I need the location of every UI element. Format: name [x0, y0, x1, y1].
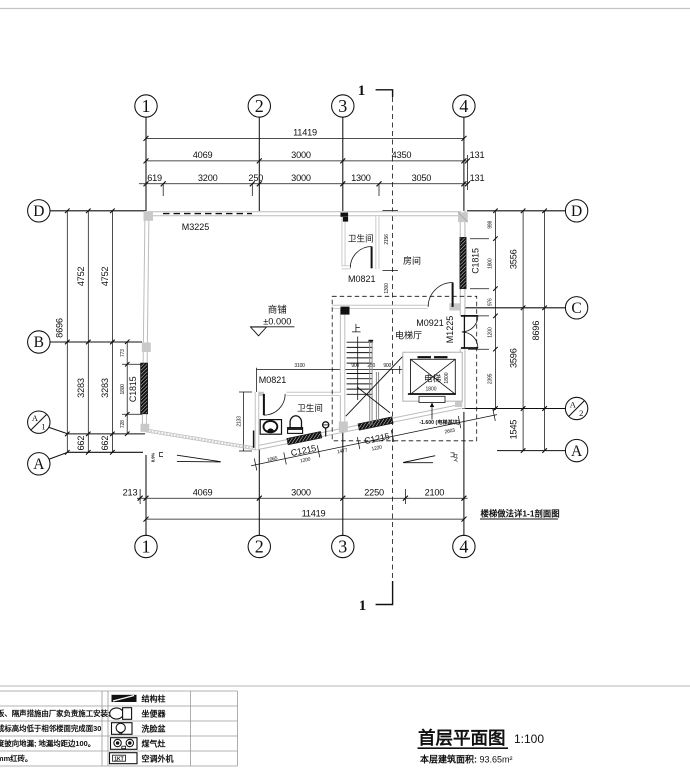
stair break diagonal short — [357, 387, 390, 413]
svg-text:1200: 1200 — [488, 327, 494, 338]
stair note 楼梯做法详1-1剖面图 — [480, 509, 560, 520]
right exterior wall lower — [460, 349, 466, 408]
grid bubble B left — [28, 331, 142, 353]
svg-text:2100: 2100 — [425, 487, 445, 497]
window C1815 left wall — [141, 363, 148, 414]
svg-text:C1815: C1815 — [471, 248, 481, 274]
svg-text:728: 728 — [120, 420, 126, 428]
svg-text:1: 1 — [41, 422, 45, 432]
svg-text:3596: 3596 — [509, 348, 519, 368]
svg-text:3556: 3556 — [509, 249, 519, 269]
svg-text:A: A — [33, 456, 45, 473]
stair rail pair 1 — [370, 341, 372, 425]
wc-top south wall stub — [342, 265, 352, 269]
svg-text:房间: 房间 — [403, 255, 421, 266]
svg-text:1800: 1800 — [120, 384, 126, 395]
svg-text:8696: 8696 — [531, 321, 541, 341]
svg-text:619: 619 — [147, 173, 162, 183]
svg-text:4069: 4069 — [193, 150, 213, 160]
svg-text:B: B — [34, 334, 44, 351]
shopfront slanted thin wall — [144, 429, 257, 451]
slanted bottom dim line — [251, 409, 497, 471]
svg-text:电梯: 电梯 — [424, 374, 442, 384]
svg-text:首层平面图: 首层平面图 — [418, 728, 506, 748]
svg-text:11419: 11419 — [293, 128, 317, 138]
door M0821 wc-top leaf — [371, 247, 373, 269]
window C1215 right (stair) — [358, 417, 393, 430]
left dim axis tick slashes — [65, 209, 115, 455]
svg-text:电梯厅: 电梯厅 — [395, 329, 422, 340]
svg-text:M3225: M3225 — [182, 222, 210, 232]
elevator X cross — [411, 359, 456, 394]
svg-text:1545: 1545 — [509, 420, 519, 440]
svg-text:2395: 2395 — [488, 373, 494, 384]
svg-text:A: A — [570, 399, 577, 409]
svg-text:1300: 1300 — [351, 173, 371, 183]
dashed stair/elevator zone box — [332, 296, 477, 441]
left exterior wall — [144, 211, 147, 430]
door M0921 leaf — [452, 283, 454, 307]
stair break diagonal long — [346, 357, 403, 417]
wc-bottom north wall west stub — [257, 392, 264, 396]
section mark 1 top — [358, 83, 393, 99]
svg-text:成标高均低于相邻楼面完成面30: 成标高均低于相邻楼面完成面30 — [0, 724, 101, 733]
svg-text:3283: 3283 — [76, 378, 86, 398]
svg-text:8.9%: 8.9% — [151, 452, 156, 462]
svg-text:1800: 1800 — [444, 372, 450, 383]
section line 1-1 dashed — [392, 97, 394, 581]
svg-text:A: A — [32, 413, 39, 423]
svg-text:2133: 2133 — [237, 416, 243, 427]
legend symbol basin — [112, 723, 133, 735]
svg-text:卫生间: 卫生间 — [297, 402, 323, 413]
door M1225 frame line — [463, 315, 465, 349]
svg-text:4752: 4752 — [100, 266, 110, 286]
svg-text:洗脸盆: 洗脸盆 — [142, 724, 167, 734]
svg-text:mm红砖。: mm红砖。 — [0, 754, 32, 763]
grid bubble A right — [497, 439, 588, 461]
svg-text:2156: 2156 — [384, 234, 390, 245]
svg-text:773: 773 — [120, 349, 126, 357]
svg-text:3: 3 — [338, 537, 347, 557]
stair treads upper — [347, 342, 373, 363]
wc-top west interior wall — [342, 216, 346, 269]
bottom dim row2 11419 — [144, 508, 467, 521]
door M1225 lower leaf — [461, 347, 478, 349]
entry ramp right — [403, 453, 459, 463]
door M0921 arc — [428, 283, 452, 307]
svg-text:D: D — [33, 203, 44, 220]
grid bubble 2 bottom — [248, 448, 270, 558]
svg-text:本层建筑面积: 93.65m²: 本层建筑面积: 93.65m² — [420, 754, 513, 765]
black column axis3 top wall — [341, 213, 349, 222]
svg-text:2: 2 — [255, 537, 264, 557]
svg-text:998: 998 — [488, 221, 494, 229]
legend notes column — [0, 709, 110, 763]
2133 dim — [237, 392, 253, 451]
svg-text:1: 1 — [142, 537, 151, 557]
door M1225 upper leaf — [461, 315, 478, 317]
svg-text:C1815: C1815 — [128, 376, 138, 402]
svg-text:3000: 3000 — [291, 487, 311, 497]
right dim lines — [468, 209, 545, 451]
svg-text:商铺: 商铺 — [268, 304, 287, 316]
column bottom-left corner — [141, 424, 150, 432]
right dim axis tick slashes — [521, 209, 547, 453]
svg-text:1: 1 — [142, 96, 151, 116]
grid bubble D left — [28, 200, 146, 222]
M3225 dashed opening — [163, 213, 252, 215]
wc-top east interior wall — [375, 216, 379, 269]
toilet — [260, 420, 281, 435]
wc-bottom west wall — [255, 392, 260, 449]
level marker ±0.000 — [251, 304, 295, 336]
left dim lines — [55, 211, 147, 452]
grid bubble A left — [28, 452, 143, 475]
svg-text:煤气灶: 煤气灶 — [142, 739, 166, 749]
svg-text:2250: 2250 — [364, 487, 384, 497]
title underline — [418, 747, 509, 749]
svg-text:板、隔声措施由厂家负责施工安装;: 板、隔声措施由厂家负责施工安装; — [0, 709, 110, 718]
legend symbol gas stove — [111, 738, 138, 750]
column C axis right — [449, 303, 460, 310]
svg-text:A: A — [571, 443, 583, 460]
grid bubble A/1 left — [28, 411, 145, 434]
svg-text:±0.000: ±0.000 — [263, 316, 291, 326]
grid bubble 3 top — [332, 95, 354, 211]
elevator-hall north wall — [332, 305, 428, 309]
svg-text:空调外机: 空调外机 — [142, 754, 174, 764]
svg-text:662: 662 — [100, 436, 110, 451]
elevator shaft outer wall — [403, 352, 463, 401]
sheet top rule — [0, 8, 690, 10]
svg-text:11419: 11419 — [302, 508, 326, 518]
column top-right corner — [458, 212, 468, 222]
grid bubble 4 bottom — [453, 412, 475, 558]
stair rail pair 2 — [376, 372, 378, 421]
legend symbol AC unit — [110, 753, 138, 764]
grid bubble 1 top — [135, 95, 157, 211]
section mark 1 bottom — [359, 581, 393, 614]
svg-text:3050: 3050 — [412, 173, 432, 183]
svg-text:2: 2 — [579, 408, 583, 418]
svg-text:1:100: 1:100 — [514, 732, 544, 746]
black column elevator-hall wall — [341, 307, 350, 315]
column top-left corner — [144, 211, 154, 221]
svg-text:1800: 1800 — [488, 258, 494, 269]
grid bubble 4 top — [453, 95, 475, 211]
black wall stub wc-bottom west edge — [253, 431, 255, 448]
elevator shaft inner wall — [411, 359, 456, 394]
grid bubble D right — [467, 200, 588, 222]
legend symbol toilet — [110, 708, 132, 720]
svg-text:D: D — [571, 203, 582, 220]
door M1225 upper arc — [462, 316, 478, 332]
svg-text:结构柱: 结构柱 — [142, 694, 166, 704]
svg-text:M0921: M0921 — [416, 318, 444, 328]
svg-text:8696: 8696 — [55, 318, 65, 338]
top dim line row2 4069/3000/4350/131 — [144, 150, 485, 163]
svg-text:3: 3 — [338, 96, 347, 116]
door M0821 wc-bottom arc — [264, 394, 285, 415]
column stair west bottom — [339, 422, 348, 433]
svg-text:上: 上 — [351, 324, 361, 335]
top dim line row3 619/3200/250/3000/1300/3050/131 — [139, 155, 484, 196]
stair dim line 3100/900/250/900 — [257, 363, 403, 394]
stair treads lower — [347, 374, 373, 395]
svg-text:3000: 3000 — [291, 173, 311, 183]
elevator top door lines — [418, 356, 448, 358]
svg-text:1: 1 — [358, 83, 366, 99]
svg-text:1: 1 — [359, 598, 367, 614]
bottom dim row1 213/4069/3000/2250/2100 — [123, 487, 468, 504]
elevator bottom sill — [419, 396, 445, 402]
column SE corner — [455, 398, 462, 408]
legend symbol structural column — [112, 695, 137, 702]
svg-text:3283: 3283 — [100, 378, 110, 398]
svg-text:900: 900 — [383, 363, 391, 369]
svg-text:2: 2 — [255, 96, 264, 116]
svg-text:卫生间: 卫生间 — [348, 233, 374, 244]
window C1215 left (wc-bottom) — [287, 432, 322, 445]
svg-text:C: C — [571, 300, 581, 317]
wc-bottom north wall east part — [287, 392, 342, 396]
grid bubble A/2 right — [462, 397, 588, 419]
section line interior dims 2156/1300 — [382, 210, 398, 293]
elevator pit leader — [430, 403, 434, 420]
svg-text:3000: 3000 — [291, 150, 311, 160]
svg-text:662: 662 — [76, 436, 86, 451]
svg-text:度披向地漏; 地漏均距边100。: 度披向地漏; 地漏均距边100。 — [0, 739, 95, 748]
legend table grid — [0, 691, 238, 766]
grid bubble 3 bottom — [332, 430, 354, 558]
svg-text:900: 900 — [351, 363, 359, 369]
stair center line — [357, 337, 359, 401]
svg-text:976: 976 — [488, 298, 494, 306]
sheet bottom rule — [0, 685, 690, 687]
svg-text:M0821: M0821 — [348, 274, 376, 284]
svg-text:-1.600 (电梯基坑): -1.600 (电梯基坑) — [419, 418, 460, 426]
svg-text:250: 250 — [367, 363, 375, 369]
svg-text:1800: 1800 — [425, 387, 436, 393]
floor drain — [323, 422, 329, 437]
door M0821 wc-bottom leaf — [263, 394, 265, 415]
door M1225 lower arc — [462, 332, 478, 348]
right exterior wall upper — [460, 211, 466, 316]
svg-text:坐便器: 坐便器 — [142, 709, 167, 719]
stair-zone west interior wall — [340, 309, 346, 430]
svg-text:楼梯做法详1-1剖面图: 楼梯做法详1-1剖面图 — [481, 509, 560, 519]
svg-text:M1225: M1225 — [445, 316, 455, 344]
svg-text:1300: 1300 — [384, 283, 390, 294]
svg-text:M0821: M0821 — [259, 375, 287, 385]
grid bubble 1 bottom — [135, 455, 157, 558]
stair rail cap — [369, 340, 374, 343]
svg-text:4: 4 — [459, 96, 468, 116]
window C1815 right wall — [460, 237, 466, 288]
bottom slanted exterior wall — [257, 406, 461, 448]
svg-text:131: 131 — [470, 173, 485, 183]
grid bubble 2 top — [248, 95, 270, 211]
svg-text:4: 4 — [459, 537, 468, 557]
svg-text:1KT: 1KT — [114, 757, 123, 763]
door M0821 wc-top arc — [350, 247, 371, 268]
column B axis left — [142, 343, 151, 353]
svg-text:131: 131 — [470, 150, 485, 160]
svg-text:4069: 4069 — [193, 487, 213, 497]
svg-text:4752: 4752 — [76, 266, 86, 286]
entry ramp left — [151, 452, 221, 462]
svg-text:3100: 3100 — [294, 363, 305, 369]
top dim line 11419 — [144, 128, 467, 141]
svg-text:3200: 3200 — [198, 173, 218, 183]
elevator shaft bottom black line — [408, 393, 456, 395]
wash basin — [288, 416, 303, 434]
grid bubble C right — [460, 297, 588, 319]
svg-text:213: 213 — [123, 487, 138, 497]
top exterior wall — [144, 211, 466, 216]
svg-text:4350: 4350 — [392, 150, 412, 160]
